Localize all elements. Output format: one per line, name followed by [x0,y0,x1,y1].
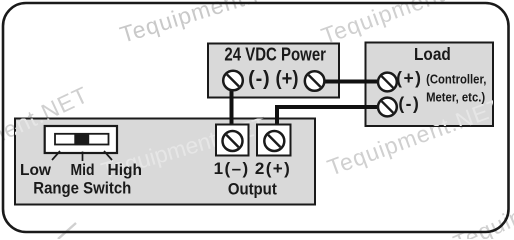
tick high [104,151,112,160]
svg-text:High: High [108,162,142,179]
screw terminal power (+) [305,71,325,91]
screw terminal load (+) [378,73,397,92]
wire: power (+) right to load (+) [315,80,388,84]
svg-text:Range Switch: Range Switch [33,180,131,198]
svg-text:Mid: Mid [71,162,95,179]
svg-text:2(+): 2(+) [255,159,291,178]
svg-text:Load: Load [414,45,451,64]
output terminal block 1 [216,125,249,156]
svg-text:Meter, etc.): Meter, etc.) [426,90,485,105]
screw terminal output 1(-) [223,131,243,151]
svg-text:24 VDC Power: 24 VDC Power [224,44,326,65]
screw terminal output 2(+) [264,131,284,151]
svg-text:(-): (-) [398,94,420,114]
tick mid [82,152,84,162]
svg-text:Low: Low [20,162,52,179]
Load box [366,43,494,127]
range switch knob [74,133,89,145]
tick low [52,151,60,160]
svg-text:Output: Output [228,180,278,198]
svg-text:1(–): 1(–) [214,159,250,178]
Range Switch / Output box [15,119,315,205]
range switch body [45,126,117,153]
wire: load (-) left and down to output 2(+) [277,107,387,141]
range switch slot [55,134,109,145]
output terminal block 2 [257,125,291,156]
screw terminal load (-) [378,98,397,117]
svg-text:(+): (+) [276,68,299,90]
watermark fragment (bottom-left stroke) [58,223,76,239]
wire: power (-) down to output 1(-) [230,82,234,141]
screw terminal power (-) [223,71,243,91]
svg-text:(-): (-) [248,68,270,90]
svg-text:(+): (+) [396,68,422,88]
svg-text:(Controller,: (Controller, [426,72,486,87]
24 VDC Power box [208,44,339,98]
